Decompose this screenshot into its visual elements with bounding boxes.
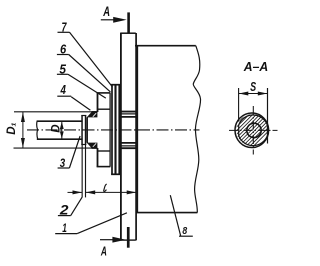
svg-text:8: 8	[182, 225, 187, 237]
svg-text:5: 5	[59, 61, 66, 76]
svg-text:7: 7	[62, 19, 68, 34]
svg-text:A–A: A–A	[243, 60, 268, 74]
svg-text:6: 6	[60, 42, 67, 57]
svg-text:S: S	[250, 80, 256, 94]
svg-text:A: A	[103, 3, 110, 19]
svg-text:2: 2	[59, 203, 69, 218]
svg-text:D: D	[51, 124, 63, 132]
svg-text:1: 1	[62, 221, 67, 235]
svg-text:A: A	[100, 244, 107, 258]
svg-text:3: 3	[60, 156, 66, 170]
svg-text:D₁: D₁	[6, 122, 18, 134]
svg-text:4: 4	[60, 82, 67, 97]
